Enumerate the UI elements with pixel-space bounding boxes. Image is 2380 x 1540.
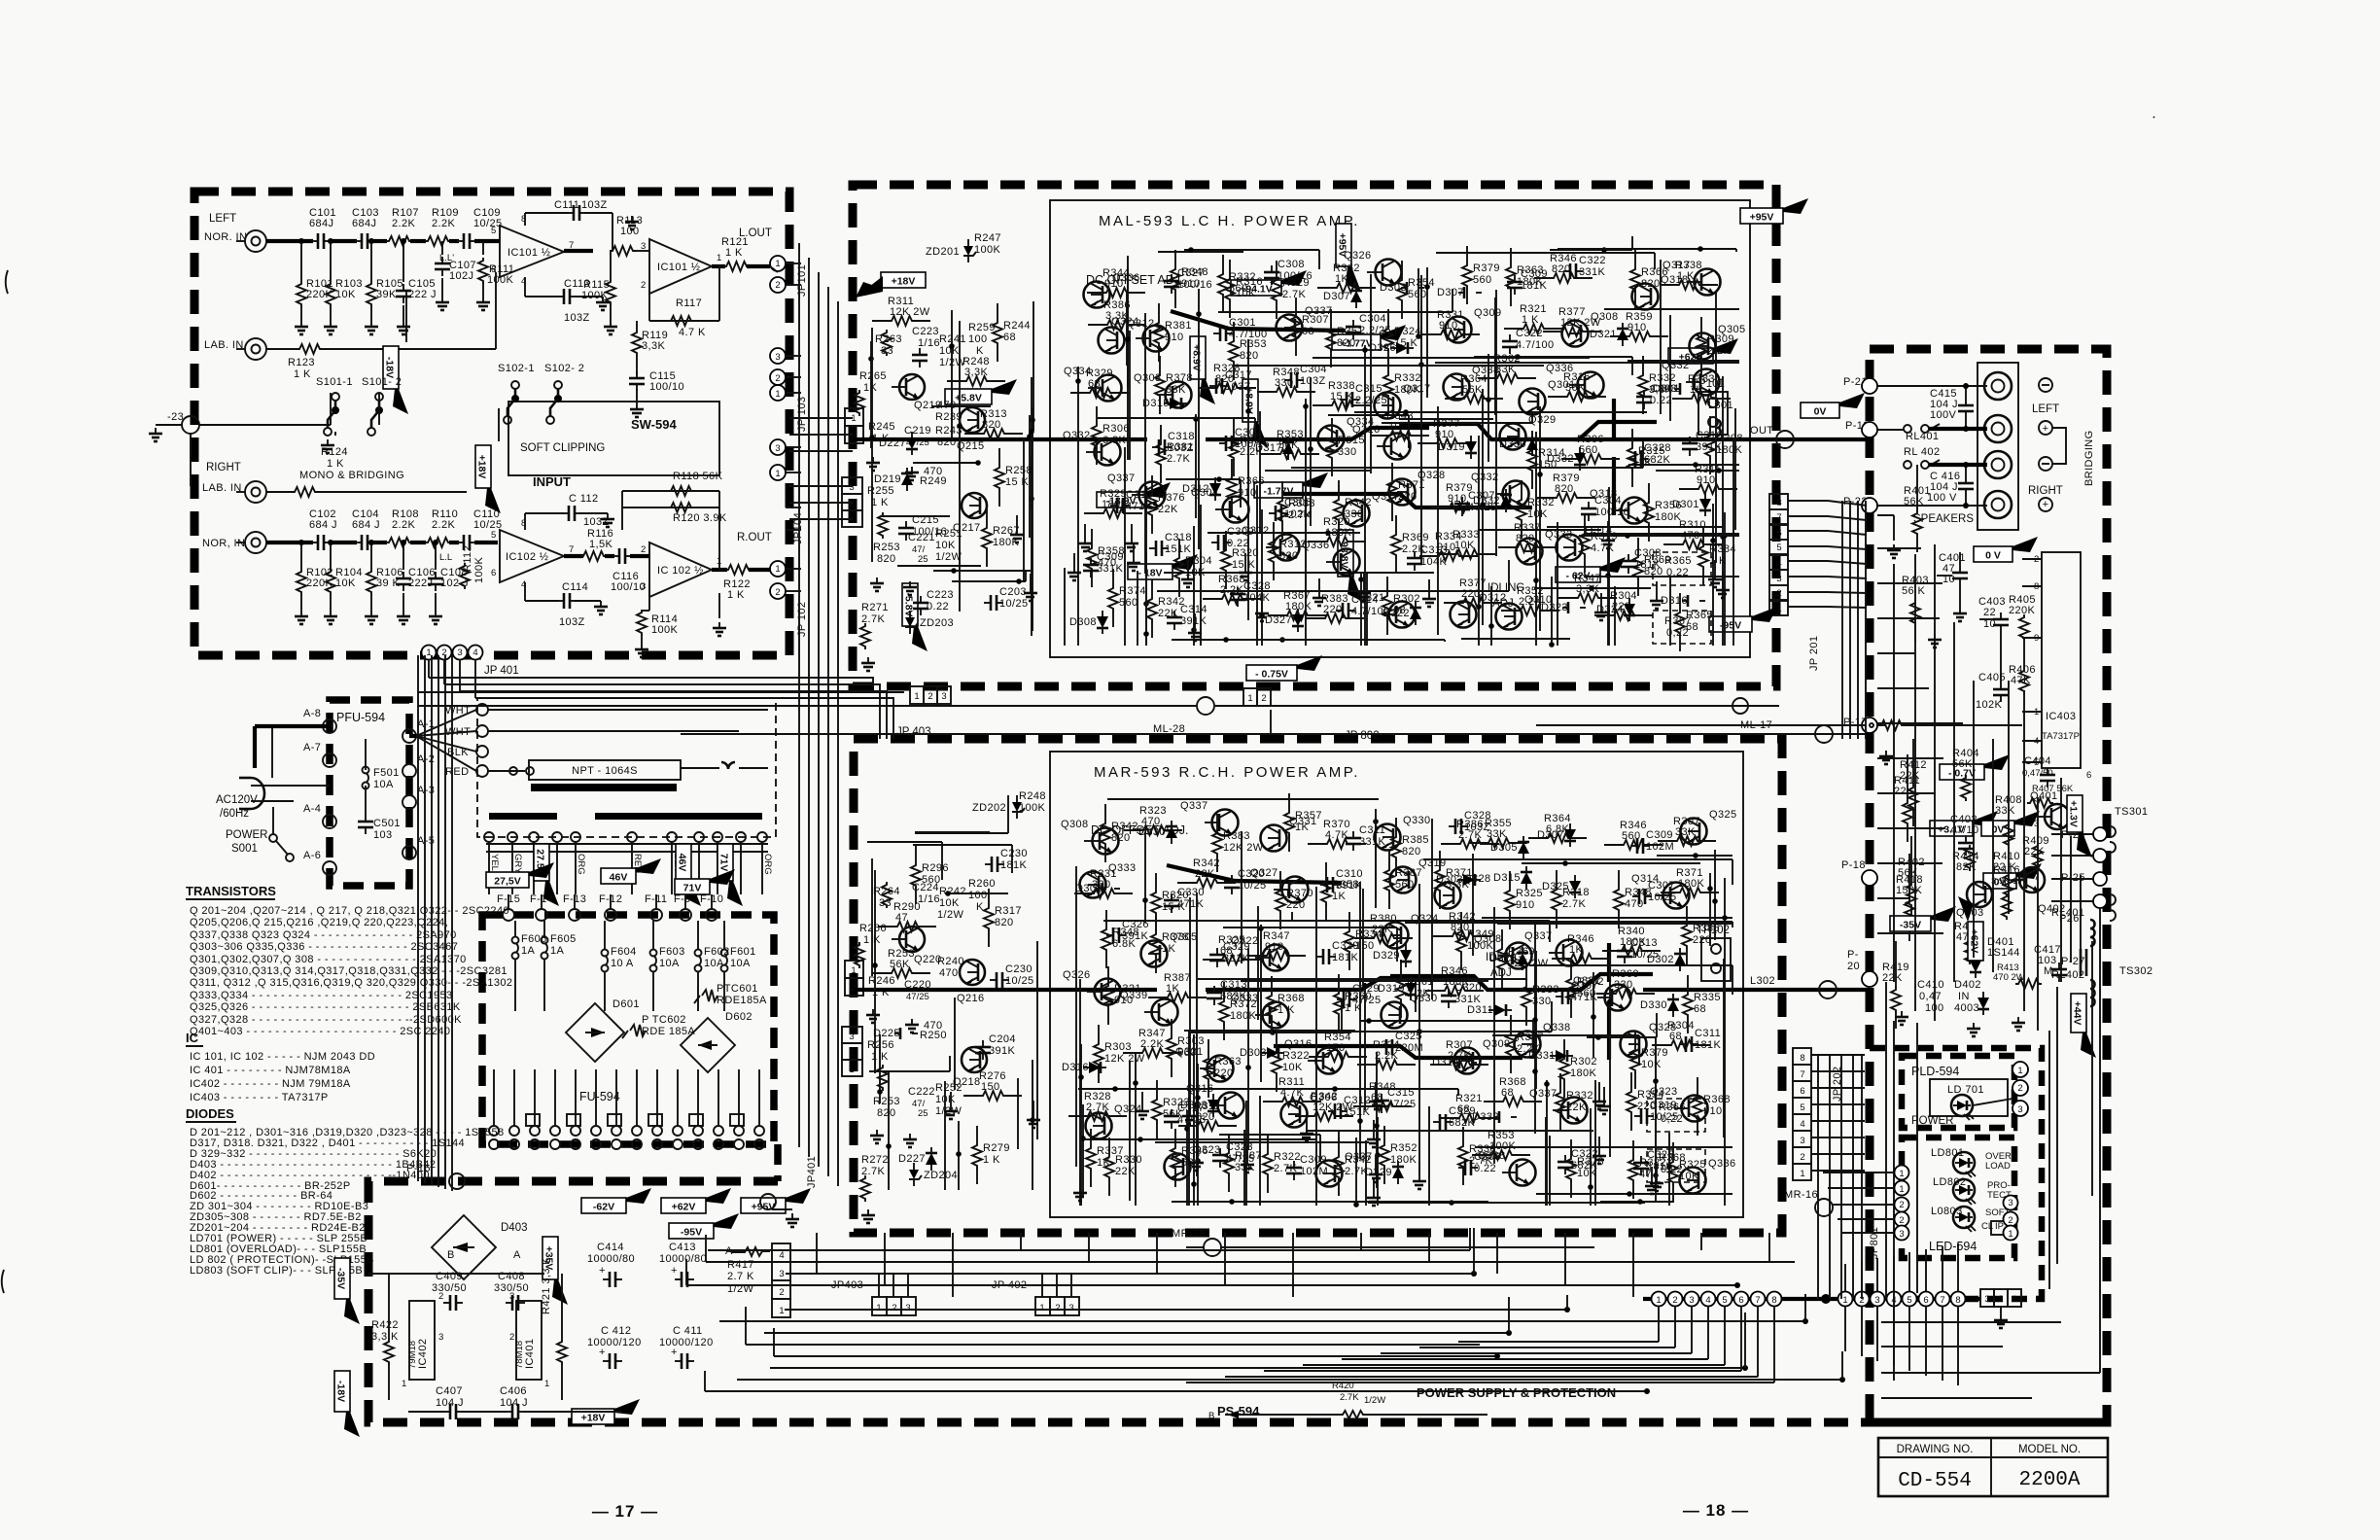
svg-text:391K: 391K xyxy=(1336,880,1363,892)
svg-text:1 K: 1 K xyxy=(1677,270,1695,282)
svg-text:2.2K: 2.2K xyxy=(1140,1038,1164,1050)
svg-text:1 K: 1 K xyxy=(294,368,311,380)
svg-text:R332: R332 xyxy=(1229,271,1256,283)
svg-text:5: 5 xyxy=(1800,1102,1804,1113)
svg-text:D332: D332 xyxy=(1473,495,1500,507)
svg-text:+: + xyxy=(599,1347,606,1358)
svg-text:JP 403: JP 403 xyxy=(896,726,931,738)
svg-text:68: 68 xyxy=(1686,621,1698,633)
svg-text:1: 1 xyxy=(775,259,780,269)
svg-text:33K: 33K xyxy=(1495,364,1516,375)
svg-text:D403: D403 xyxy=(501,1222,528,1234)
svg-text:1: 1 xyxy=(851,965,856,976)
svg-text:3,3K: 3,3K xyxy=(964,367,988,378)
svg-text:820: 820 xyxy=(1240,350,1259,362)
svg-text:C219: C219 xyxy=(904,425,931,437)
svg-text:F501: F501 xyxy=(373,767,400,779)
svg-text:1 K: 1 K xyxy=(983,1154,1000,1166)
svg-text:100K: 100K xyxy=(1467,940,1494,952)
svg-text:103Z: 103Z xyxy=(1225,381,1251,393)
svg-text:R239: R239 xyxy=(935,411,962,423)
svg-text:+: + xyxy=(2043,423,2049,435)
svg-text:JP 201: JP 201 xyxy=(1808,636,1820,671)
svg-text:C328: C328 xyxy=(1644,442,1671,454)
svg-text:RL 402: RL 402 xyxy=(1904,446,1940,458)
svg-text:6: 6 xyxy=(1923,1295,1928,1306)
svg-text:46V: 46V xyxy=(677,854,688,872)
svg-text:D301: D301 xyxy=(1653,383,1680,395)
svg-text:D325: D325 xyxy=(1542,881,1569,892)
svg-text:C309: C309 xyxy=(1227,526,1254,538)
svg-text:D307: D307 xyxy=(1537,829,1564,841)
svg-text:INPUT: INPUT xyxy=(533,474,571,489)
svg-text:3: 3 xyxy=(1689,1295,1694,1306)
svg-text:C230: C230 xyxy=(1000,848,1028,859)
svg-text:C308: C308 xyxy=(1634,547,1662,559)
svg-text:910: 910 xyxy=(1114,995,1134,1006)
svg-text:100: 100 xyxy=(968,890,988,901)
svg-text:102M: 102M xyxy=(1300,1166,1328,1177)
svg-text:RIGHT: RIGHT xyxy=(2028,485,2063,497)
svg-text:47: 47 xyxy=(895,912,908,924)
svg-text:IC: IC xyxy=(186,1031,199,1045)
svg-text:C230: C230 xyxy=(1005,963,1032,975)
svg-text:D323: D323 xyxy=(1541,602,1568,613)
svg-text:D316: D316 xyxy=(1062,1062,1089,1073)
svg-text:Q324: Q324 xyxy=(1411,913,1439,925)
svg-text:R422: R422 xyxy=(371,1319,399,1331)
svg-text:B: B xyxy=(1208,1411,1214,1421)
svg-text:C313: C313 xyxy=(1220,979,1247,991)
svg-text:+8.9V: +8.9V xyxy=(1191,344,1203,371)
svg-text:LEFT: LEFT xyxy=(209,213,236,225)
svg-text:Q337: Q337 xyxy=(1180,800,1208,812)
svg-text:R322: R322 xyxy=(1282,1050,1310,1062)
svg-text:3,3 K: 3,3 K xyxy=(371,1331,399,1343)
svg-text:151K: 151K xyxy=(1165,543,1192,555)
svg-text:3: 3 xyxy=(1984,1294,1989,1305)
svg-text:910: 910 xyxy=(1516,899,1535,911)
svg-text:3: 3 xyxy=(2008,1198,2012,1208)
svg-text:C312: C312 xyxy=(1344,1095,1371,1106)
svg-text:LAB. IN: LAB. IN xyxy=(202,482,242,494)
svg-text:D301: D301 xyxy=(1672,499,1699,510)
svg-text:0.22: 0.22 xyxy=(927,601,949,612)
svg-text:Q319: Q319 xyxy=(1418,857,1447,869)
svg-text:R322: R322 xyxy=(1274,1151,1301,1163)
svg-text:1: 1 xyxy=(1842,1295,1847,1306)
svg-text:71V: 71V xyxy=(683,883,702,894)
svg-text:68: 68 xyxy=(1669,1031,1682,1042)
svg-text:820: 820 xyxy=(877,1107,896,1119)
svg-text:820: 820 xyxy=(1516,533,1535,544)
svg-text:R123: R123 xyxy=(288,357,315,368)
svg-text:D302: D302 xyxy=(1647,954,1674,965)
svg-text:46V: 46V xyxy=(610,872,628,884)
svg-text:A: A xyxy=(513,1249,521,1261)
svg-text:15 K: 15 K xyxy=(1330,391,1353,402)
svg-text:Q337: Q337 xyxy=(1107,472,1136,484)
svg-text:1: 1 xyxy=(1899,1184,1904,1195)
svg-text:1: 1 xyxy=(2017,1066,2022,1076)
svg-text:D325: D325 xyxy=(1489,953,1517,964)
svg-text:R253: R253 xyxy=(873,542,900,553)
svg-text:5: 5 xyxy=(1776,542,1781,553)
svg-text:10/25: 10/25 xyxy=(999,598,1029,610)
svg-text:2.2K: 2.2K xyxy=(392,519,415,531)
svg-text:2.7 K: 2.7 K xyxy=(727,1271,754,1282)
svg-text:Q216: Q216 xyxy=(957,993,985,1004)
svg-text:Q217: Q217 xyxy=(953,522,981,534)
svg-text:R376: R376 xyxy=(1158,492,1185,504)
svg-text:4: 4 xyxy=(779,1250,784,1261)
svg-text:4003: 4003 xyxy=(1954,1002,1979,1014)
svg-text:S101-1: S101-1 xyxy=(316,376,353,388)
svg-text:1: 1 xyxy=(1776,604,1781,614)
svg-text:R303: R303 xyxy=(1104,1041,1132,1053)
svg-text:Q401~403 - - - - - - - - - -: Q401~403 - - - - - - - - - - - - - - - -… xyxy=(190,1026,450,1037)
svg-text:684J: 684J xyxy=(309,218,333,229)
svg-text:R379: R379 xyxy=(1641,1047,1668,1059)
svg-text:TS302: TS302 xyxy=(2119,965,2152,977)
svg-text:1 K: 1 K xyxy=(1709,555,1727,567)
svg-text:10000/80: 10000/80 xyxy=(659,1253,707,1265)
svg-text:D312: D312 xyxy=(1182,483,1209,495)
svg-text:D303: D303 xyxy=(1436,874,1463,886)
svg-text:470: 470 xyxy=(1681,530,1700,542)
svg-text:L.L: L.L xyxy=(439,552,452,563)
svg-text:4: 4 xyxy=(1776,558,1781,569)
svg-text:3: 3 xyxy=(1874,1295,1879,1306)
svg-text:820: 820 xyxy=(1555,483,1574,495)
svg-text:100K: 100K xyxy=(1388,421,1416,433)
svg-text:1 K: 1 K xyxy=(727,589,745,601)
svg-text:3: 3 xyxy=(905,1303,910,1313)
svg-text:560: 560 xyxy=(1395,879,1415,891)
svg-text:100: 100 xyxy=(968,333,988,345)
svg-text:1 K: 1 K xyxy=(1277,1004,1295,1016)
svg-text:JP 102: JP 102 xyxy=(796,602,808,637)
svg-text:3,3K: 3,3K xyxy=(642,340,665,352)
svg-text:CD-554: CD-554 xyxy=(1898,1470,1972,1492)
svg-text:PLD-594: PLD-594 xyxy=(1911,1065,1959,1078)
svg-text:-23: -23 xyxy=(167,411,184,423)
svg-text:220M: 220M xyxy=(1395,1042,1423,1054)
svg-text:2: 2 xyxy=(849,499,854,509)
svg-text:56K: 56K xyxy=(1904,496,1924,507)
svg-text:R321: R321 xyxy=(1114,983,1141,995)
svg-text:R378: R378 xyxy=(1166,372,1193,384)
svg-text:Q215: Q215 xyxy=(957,440,985,452)
svg-text:151K: 151K xyxy=(1344,1106,1371,1118)
svg-text:2.7K: 2.7K xyxy=(1167,453,1190,465)
svg-text:F601: F601 xyxy=(730,946,756,958)
svg-text:330: 330 xyxy=(1614,979,1633,991)
svg-text:Q332: Q332 xyxy=(1471,472,1499,483)
svg-text:IC 101, IC 102 - - - - - NJM: IC 101, IC 102 - - - - - NJM 2043 DD xyxy=(190,1051,375,1063)
svg-text:D329: D329 xyxy=(1365,1167,1392,1178)
svg-text:1: 1 xyxy=(849,515,854,526)
svg-text:1: 1 xyxy=(779,1306,784,1316)
svg-text:39K: 39K xyxy=(376,289,397,300)
svg-text:D327: D327 xyxy=(1265,614,1292,626)
svg-text:682K: 682K xyxy=(1571,1160,1598,1172)
svg-text:+: + xyxy=(671,1265,678,1277)
svg-text:JP 103: JP 103 xyxy=(796,397,808,432)
svg-text:D311: D311 xyxy=(1467,1004,1493,1016)
svg-text:MR-28: MR-28 xyxy=(1172,1228,1206,1240)
svg-text:71V: 71V xyxy=(718,854,730,872)
svg-text:8: 8 xyxy=(1955,1295,1960,1306)
svg-text:7: 7 xyxy=(569,544,574,555)
svg-text:3: 3 xyxy=(775,443,780,454)
svg-text:10K: 10K xyxy=(1679,1171,1699,1182)
svg-text:560: 560 xyxy=(1473,274,1492,286)
svg-text:820: 820 xyxy=(982,419,1001,431)
svg-text:L302: L302 xyxy=(1750,975,1775,987)
svg-text:2: 2 xyxy=(849,1048,854,1059)
svg-text:PFU-594: PFU-594 xyxy=(336,711,385,724)
svg-text:104K: 104K xyxy=(1420,556,1448,568)
svg-text:Q337: Q337 xyxy=(1524,930,1553,942)
svg-text:NOR, IN: NOR, IN xyxy=(202,538,245,549)
svg-text:100K: 100K xyxy=(581,290,609,301)
svg-text:1: 1 xyxy=(1039,1303,1044,1313)
svg-text:2.2/25: 2.2/25 xyxy=(1359,325,1391,336)
svg-text:181K: 181K xyxy=(1695,1039,1722,1051)
svg-text:820: 820 xyxy=(877,553,896,565)
svg-text:220: 220 xyxy=(1461,588,1481,600)
svg-text:2: 2 xyxy=(2017,1083,2022,1094)
svg-text:AC120V: AC120V xyxy=(216,794,258,806)
svg-text:D303: D303 xyxy=(1075,883,1102,894)
svg-text:1 K: 1 K xyxy=(327,458,344,470)
svg-text:D330: D330 xyxy=(1640,999,1667,1011)
svg-text:F605: F605 xyxy=(550,933,577,945)
svg-text:1: 1 xyxy=(1656,1295,1661,1306)
svg-text:220: 220 xyxy=(1286,899,1306,911)
svg-text:2.7K: 2.7K xyxy=(1562,898,1586,910)
svg-text:1K: 1K xyxy=(1690,384,1704,396)
svg-text:1A: 1A xyxy=(550,945,565,957)
svg-text:0V: 0V xyxy=(1814,406,1827,418)
svg-text:103Z: 103Z xyxy=(1464,822,1490,833)
svg-text:15 K: 15 K xyxy=(1005,476,1029,488)
svg-text:56 K: 56 K xyxy=(1902,585,1925,597)
svg-text:10K: 10K xyxy=(1641,1059,1662,1070)
svg-text:IC403 - - - - - - - - TA7317: IC403 - - - - - - - - TA7317P xyxy=(190,1092,329,1103)
svg-text:C323: C323 xyxy=(1226,1141,1253,1153)
svg-text:C309: C309 xyxy=(1521,268,1548,280)
svg-text:C302: C302 xyxy=(1235,427,1262,438)
svg-text:1,5K: 1,5K xyxy=(589,539,612,550)
svg-text:10/25: 10/25 xyxy=(473,218,503,229)
svg-text:Q337,Q338 Q323 Q324 - - -: Q337,Q338 Q323 Q324 - - - - - - - - - - … xyxy=(190,929,457,941)
svg-text:IC402: IC402 xyxy=(417,1339,429,1369)
svg-text:D316: D316 xyxy=(1661,595,1688,607)
svg-text:C322: C322 xyxy=(1579,255,1606,266)
svg-text:RDE 185A: RDE 185A xyxy=(642,1026,695,1037)
svg-text:56K: 56K xyxy=(1462,384,1483,396)
svg-text:180K: 180K xyxy=(1655,511,1682,523)
svg-text:C329: C329 xyxy=(1332,940,1359,952)
svg-text:JP801: JP801 xyxy=(1869,1227,1880,1259)
svg-text:3: 3 xyxy=(1776,574,1781,584)
svg-text:IC102 ½: IC102 ½ xyxy=(506,551,548,563)
svg-text:C318: C318 xyxy=(1168,431,1195,442)
svg-text:22K: 22K xyxy=(1158,504,1178,515)
svg-text:R324: R324 xyxy=(1394,326,1421,337)
svg-text:ZD201: ZD201 xyxy=(926,246,960,258)
svg-text:IC 401 - - - - - - - - NJM78M: IC 401 - - - - - - - - NJM78M18A xyxy=(190,1065,351,1076)
svg-text:1K: 1K xyxy=(1295,822,1310,833)
svg-text:22K: 22K xyxy=(1566,1102,1587,1113)
svg-text:12K 2W: 12K 2W xyxy=(1560,317,1601,329)
svg-text:220: 220 xyxy=(1214,1067,1234,1079)
svg-text:2.2K: 2.2K xyxy=(1707,345,1731,357)
svg-text:2: 2 xyxy=(775,587,780,598)
svg-text:181K: 181K xyxy=(1521,280,1548,292)
svg-text:1: 1 xyxy=(851,413,856,424)
svg-text:R325: R325 xyxy=(1516,888,1543,899)
svg-text:D315: D315 xyxy=(1142,398,1170,409)
svg-text:2.7K: 2.7K xyxy=(1086,1102,1109,1113)
svg-text:12K 2W: 12K 2W xyxy=(890,306,930,318)
svg-text:100K: 100K xyxy=(1019,802,1046,814)
svg-text:471K: 471K xyxy=(1571,992,1598,1003)
svg-text:C322: C322 xyxy=(1571,1148,1598,1160)
svg-text:+: + xyxy=(671,1347,678,1358)
svg-text:SW-594: SW-594 xyxy=(631,417,677,432)
svg-text:R332: R332 xyxy=(1394,372,1421,384)
svg-text:D319: D319 xyxy=(1378,983,1405,995)
svg-text:1/2W: 1/2W xyxy=(937,909,963,921)
svg-text:A-8: A-8 xyxy=(303,708,321,719)
svg-text:1A: 1A xyxy=(521,945,536,957)
svg-text:56K: 56K xyxy=(1952,758,1973,770)
svg-text:220: 220 xyxy=(1323,604,1343,615)
svg-text:2.7K: 2.7K xyxy=(1340,1392,1359,1403)
svg-text:C326: C326 xyxy=(1122,919,1149,930)
svg-text:+62V: +62V xyxy=(672,1202,696,1213)
svg-text:2: 2 xyxy=(1899,1215,1904,1226)
svg-text:Q308: Q308 xyxy=(1061,819,1089,830)
svg-text:102M: 102M xyxy=(1646,841,1674,853)
svg-text:103Z: 103Z xyxy=(581,199,608,211)
svg-text:820: 820 xyxy=(1552,263,1571,275)
svg-text:R258: R258 xyxy=(1005,465,1032,476)
svg-text:47/25: 47/25 xyxy=(1226,1153,1255,1165)
svg-text:R357: R357 xyxy=(1295,810,1322,822)
svg-text:-35V: -35V xyxy=(335,1268,347,1289)
svg-text:L.OUT: L.OUT xyxy=(739,227,772,239)
svg-text:C322: C322 xyxy=(1516,328,1543,339)
svg-text:10/25: 10/25 xyxy=(473,519,503,531)
svg-text:25: 25 xyxy=(918,1108,928,1119)
svg-text:R342: R342 xyxy=(1345,1154,1372,1166)
svg-text:R272: R272 xyxy=(861,1154,889,1166)
svg-text:R303: R303 xyxy=(1177,1035,1205,1047)
svg-text:JP 802: JP 802 xyxy=(1345,730,1380,742)
svg-text:10K: 10K xyxy=(335,577,356,589)
svg-text:D330: D330 xyxy=(1499,438,1526,450)
svg-text:JP401: JP401 xyxy=(806,1156,818,1188)
svg-text:S101- 2: S101- 2 xyxy=(362,376,402,388)
svg-text:R363: R363 xyxy=(1214,1056,1242,1067)
svg-text:JP101: JP101 xyxy=(796,264,808,297)
svg-text:2.7K: 2.7K xyxy=(1282,289,1306,300)
svg-text:470: 470 xyxy=(924,466,943,477)
svg-text:R386: R386 xyxy=(1693,923,1720,934)
svg-text:C 112: C 112 xyxy=(569,493,599,505)
svg-text:1: 1 xyxy=(2012,1294,2016,1305)
svg-text:POWER SUPPLY & PROTECTION: POWER SUPPLY & PROTECTION xyxy=(1417,1385,1616,1400)
svg-text:Q218: Q218 xyxy=(953,1076,981,1088)
svg-text:JP 401: JP 401 xyxy=(484,665,519,677)
svg-text:2: 2 xyxy=(2008,1215,2012,1226)
svg-text:R366: R366 xyxy=(1641,266,1668,278)
svg-text:1 K: 1 K xyxy=(871,497,889,508)
svg-text:180K: 180K xyxy=(1394,384,1421,396)
svg-text:3,3K: 3,3K xyxy=(1105,310,1129,322)
svg-text:79M18: 79M18 xyxy=(407,1341,418,1369)
svg-text:D322: D322 xyxy=(1382,608,1410,619)
svg-text:3: 3 xyxy=(641,581,646,592)
svg-text:C413: C413 xyxy=(669,1242,696,1253)
svg-text:910: 910 xyxy=(1165,332,1184,343)
svg-text:684 J: 684 J xyxy=(309,519,337,531)
svg-text:+18V: +18V xyxy=(892,276,916,288)
svg-text:R118 56K: R118 56K xyxy=(673,471,723,482)
svg-text:10000/80: 10000/80 xyxy=(587,1253,635,1265)
svg-text:D314: D314 xyxy=(1432,1057,1459,1068)
svg-text:R242: R242 xyxy=(939,886,966,897)
svg-text:Q332: Q332 xyxy=(1063,430,1091,441)
svg-text:R379: R379 xyxy=(1473,262,1500,274)
svg-text:P TC602: P TC602 xyxy=(642,1014,686,1026)
svg-text:D332: D332 xyxy=(1547,453,1574,465)
svg-text:2: 2 xyxy=(775,280,780,291)
svg-text:D305: D305 xyxy=(1490,842,1518,854)
svg-text:R265: R265 xyxy=(859,370,887,382)
svg-text:3: 3 xyxy=(457,647,462,658)
svg-text:R365: R365 xyxy=(1686,610,1713,621)
svg-text:910: 910 xyxy=(1703,1105,1723,1117)
svg-text:391K: 391K xyxy=(989,1045,1016,1057)
svg-text:+: + xyxy=(2043,499,2049,510)
svg-text:IC 102 ½: IC 102 ½ xyxy=(657,565,704,577)
svg-text:ORG: ORG xyxy=(762,854,773,875)
svg-text:684 J: 684 J xyxy=(352,519,380,531)
svg-text:TA7317P: TA7317P xyxy=(2042,731,2080,742)
svg-text:910: 910 xyxy=(1238,487,1257,499)
svg-text:C316: C316 xyxy=(1696,430,1723,441)
svg-text:68: 68 xyxy=(1302,326,1314,337)
svg-text:3: 3 xyxy=(849,1032,854,1042)
svg-text:391K: 391K xyxy=(1696,441,1723,453)
svg-text:R371: R371 xyxy=(1398,479,1425,491)
svg-text:C329: C329 xyxy=(1352,983,1380,995)
svg-text:D321: D321 xyxy=(1590,329,1617,340)
svg-text:R.OUT: R.OUT xyxy=(737,532,772,543)
svg-text:D402: D402 xyxy=(1954,979,1981,991)
svg-text:F-9: F-9 xyxy=(674,893,691,905)
svg-text:10/25: 10/25 xyxy=(1648,892,1677,903)
svg-text:R349: R349 xyxy=(1467,928,1494,940)
svg-text:22: 22 xyxy=(1983,607,1996,618)
svg-text:FU-594: FU-594 xyxy=(579,1090,620,1103)
svg-text:PTC601: PTC601 xyxy=(717,983,758,995)
